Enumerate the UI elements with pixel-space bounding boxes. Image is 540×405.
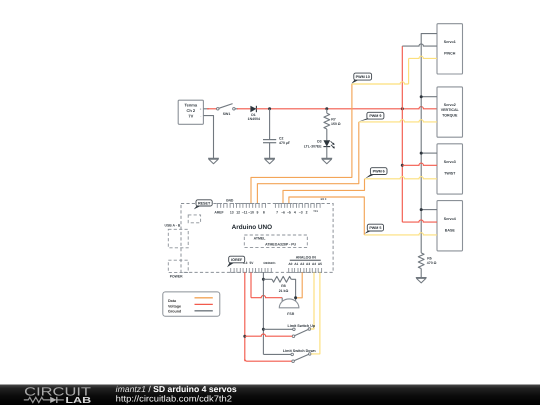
- svg-text:~5: ~5: [287, 211, 291, 215]
- svg-text:A5: A5: [318, 262, 322, 266]
- svg-text:RESET: RESET: [198, 201, 211, 205]
- svg-text:R8: R8: [281, 284, 286, 288]
- svg-text:4: 4: [294, 211, 296, 215]
- svg-text:R5: R5: [427, 256, 432, 260]
- svg-text:BASE: BASE: [445, 228, 456, 232]
- svg-text:AREF: AREF: [214, 211, 223, 215]
- svg-text:SW1: SW1: [223, 112, 231, 116]
- svg-text:Servo3: Servo3: [444, 160, 456, 164]
- svg-text:LAB: LAB: [65, 395, 91, 405]
- svg-text:150 Ω: 150 Ω: [331, 122, 341, 126]
- svg-text:PWM 6: PWM 6: [373, 169, 385, 173]
- svg-text:21 kΩ: 21 kΩ: [279, 289, 289, 293]
- svg-text:R7: R7: [331, 118, 336, 122]
- svg-text:Tenma: Tenma: [184, 102, 197, 107]
- svg-text:Servo1: Servo1: [444, 40, 456, 44]
- svg-text:LTL-307EE: LTL-307EE: [304, 144, 322, 148]
- svg-text:A2: A2: [300, 262, 304, 266]
- svg-text:Limit Switch Up: Limit Switch Up: [287, 324, 315, 328]
- svg-text:Ground: Ground: [168, 309, 182, 313]
- svg-text:7: 7: [276, 211, 278, 215]
- svg-text:http://circuitlab.com/cdk7th2: http://circuitlab.com/cdk7th2: [116, 393, 232, 403]
- svg-text:-: -: [200, 114, 201, 118]
- svg-text:GNDGNDVin: GNDGNDVin: [263, 261, 275, 265]
- svg-text:~3: ~3: [299, 211, 303, 215]
- svg-text:Voltage: Voltage: [168, 305, 181, 309]
- svg-text:POWER: POWER: [170, 274, 183, 278]
- svg-text:~6: ~6: [281, 211, 285, 215]
- svg-text:~10: ~10: [248, 211, 254, 215]
- svg-text:IOREF: IOREF: [231, 258, 243, 262]
- svg-text:Ch 2: Ch 2: [186, 108, 195, 113]
- svg-text:PWM 10: PWM 10: [356, 75, 370, 79]
- svg-text:ATMEL: ATMEL: [254, 237, 267, 241]
- svg-text:D3: D3: [317, 140, 322, 144]
- svg-text:A0: A0: [288, 262, 292, 266]
- svg-text:Limit Switch Down: Limit Switch Down: [283, 349, 317, 353]
- svg-text:ANALOG IN: ANALOG IN: [296, 255, 317, 259]
- svg-text:USB A - B: USB A - B: [165, 223, 181, 227]
- svg-text:470 Ω: 470 Ω: [427, 261, 437, 265]
- svg-text:~11: ~11: [242, 211, 248, 215]
- svg-text:13: 13: [230, 211, 234, 215]
- svg-text:12: 12: [236, 211, 240, 215]
- svg-text:TORQUE: TORQUE: [442, 113, 458, 117]
- svg-text:ATMEGA328P - PU: ATMEGA328P - PU: [265, 243, 296, 247]
- svg-text:Servo4: Servo4: [444, 217, 456, 221]
- svg-text:GND: GND: [226, 199, 234, 203]
- svg-text:Data: Data: [168, 299, 177, 303]
- svg-text:9: 9: [256, 211, 258, 215]
- svg-text:Arduino UNO: Arduino UNO: [232, 224, 272, 231]
- svg-text:1N4004: 1N4004: [248, 117, 260, 121]
- svg-text:A4: A4: [312, 262, 316, 266]
- svg-text:TWIST: TWIST: [444, 172, 456, 176]
- svg-text:Servo2: Servo2: [444, 103, 456, 107]
- svg-text:A3: A3: [306, 262, 310, 266]
- svg-text:VERTICAL: VERTICAL: [441, 108, 460, 112]
- svg-text:A1: A1: [294, 262, 298, 266]
- svg-text:PINCH: PINCH: [444, 51, 456, 55]
- svg-text:PWM 5: PWM 5: [369, 226, 381, 230]
- svg-text:470 µF: 470 µF: [279, 141, 291, 145]
- svg-text:C2: C2: [279, 136, 284, 140]
- svg-text:8: 8: [263, 211, 265, 215]
- svg-text:7V: 7V: [188, 114, 193, 119]
- svg-text:TX1: TX1: [313, 210, 318, 213]
- svg-text:FSR: FSR: [287, 312, 294, 316]
- svg-text:PWM 9: PWM 9: [369, 114, 381, 118]
- svg-text:2: 2: [306, 211, 308, 215]
- svg-text:RX 0: RX 0: [321, 198, 327, 201]
